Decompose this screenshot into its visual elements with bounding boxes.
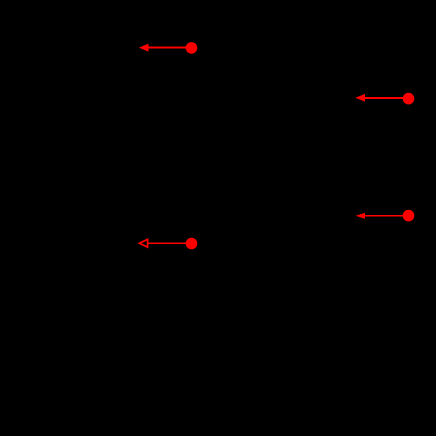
vector A3 filled arrowhead <box>356 213 365 219</box>
vector A4 open (hollow) arrowhead <box>139 239 147 247</box>
vector A1 tail dot <box>186 42 198 54</box>
vector A4 shaft (bottom-left arrow, points left) <box>148 242 191 244</box>
vector A2 filled arrowhead <box>355 94 365 102</box>
vector A4 tail dot <box>186 238 198 250</box>
vector A2 shaft (top-right arrow, points left) <box>364 97 409 99</box>
vector A3 shaft (right-middle arrow, points left) <box>364 215 409 217</box>
vector A1 shaft (top-left arrow, points left) <box>147 47 192 49</box>
vector A3 tail dot <box>403 210 415 222</box>
vector A1 filled arrowhead <box>139 44 149 52</box>
vector A2 tail dot <box>403 93 415 105</box>
